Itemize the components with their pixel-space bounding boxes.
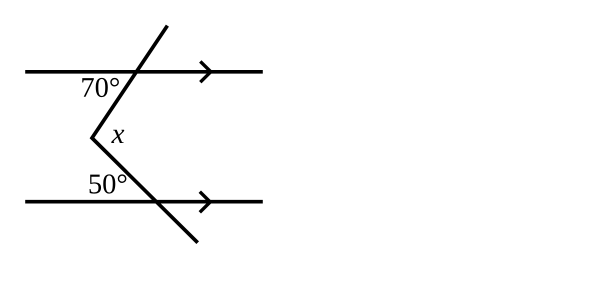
top parallel line: [25, 70, 263, 74]
label x: [111, 130, 124, 143]
label 50 degrees: [90, 174, 127, 193]
bottom line arrow chevron: [200, 192, 210, 213]
top line arrow chevron: [200, 61, 211, 82]
label 70 degrees: [82, 78, 119, 97]
transversal zigzag (upper segment through top line, vertex, lower segment through bottom line): [92, 26, 198, 243]
bottom parallel line: [25, 200, 263, 204]
